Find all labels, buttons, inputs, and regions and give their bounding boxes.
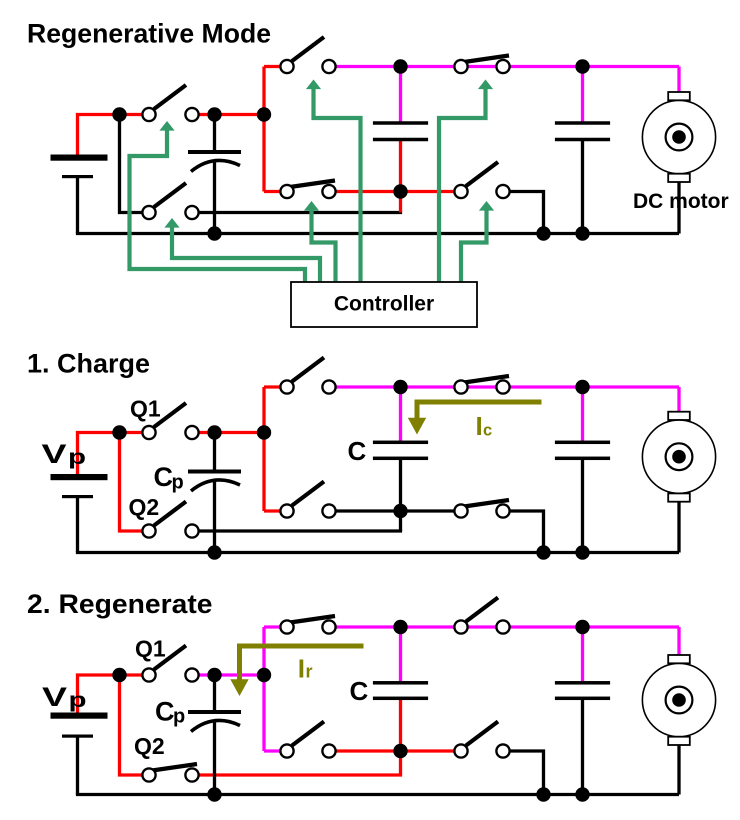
- svg-text:1. Charge: 1. Charge: [27, 349, 150, 379]
- svg-text:DC motor: DC motor: [633, 190, 729, 213]
- svg-text:C: C: [350, 676, 369, 706]
- svg-text:Regenerative Mode: Regenerative Mode: [27, 18, 271, 48]
- svg-text:p: p: [173, 706, 185, 728]
- svg-text:I: I: [298, 653, 305, 683]
- svg-text:C: C: [155, 697, 175, 727]
- svg-text:p: p: [69, 689, 87, 712]
- svg-text:V: V: [42, 682, 67, 712]
- svg-text:r: r: [306, 662, 313, 682]
- svg-text:V: V: [42, 439, 67, 469]
- svg-text:p: p: [172, 472, 184, 494]
- svg-text:2. Regenerate: 2. Regenerate: [27, 589, 213, 619]
- svg-text:Q2: Q2: [129, 494, 160, 520]
- svg-text:Q1: Q1: [130, 396, 161, 422]
- svg-text:Q2: Q2: [134, 733, 165, 759]
- svg-text:Q1: Q1: [135, 636, 166, 662]
- svg-text:C: C: [348, 436, 367, 466]
- svg-text:I: I: [476, 411, 483, 441]
- svg-text:p: p: [68, 446, 86, 469]
- svg-text:Controller: Controller: [334, 293, 434, 316]
- svg-text:c: c: [483, 422, 492, 440]
- svg-text:C: C: [154, 462, 174, 492]
